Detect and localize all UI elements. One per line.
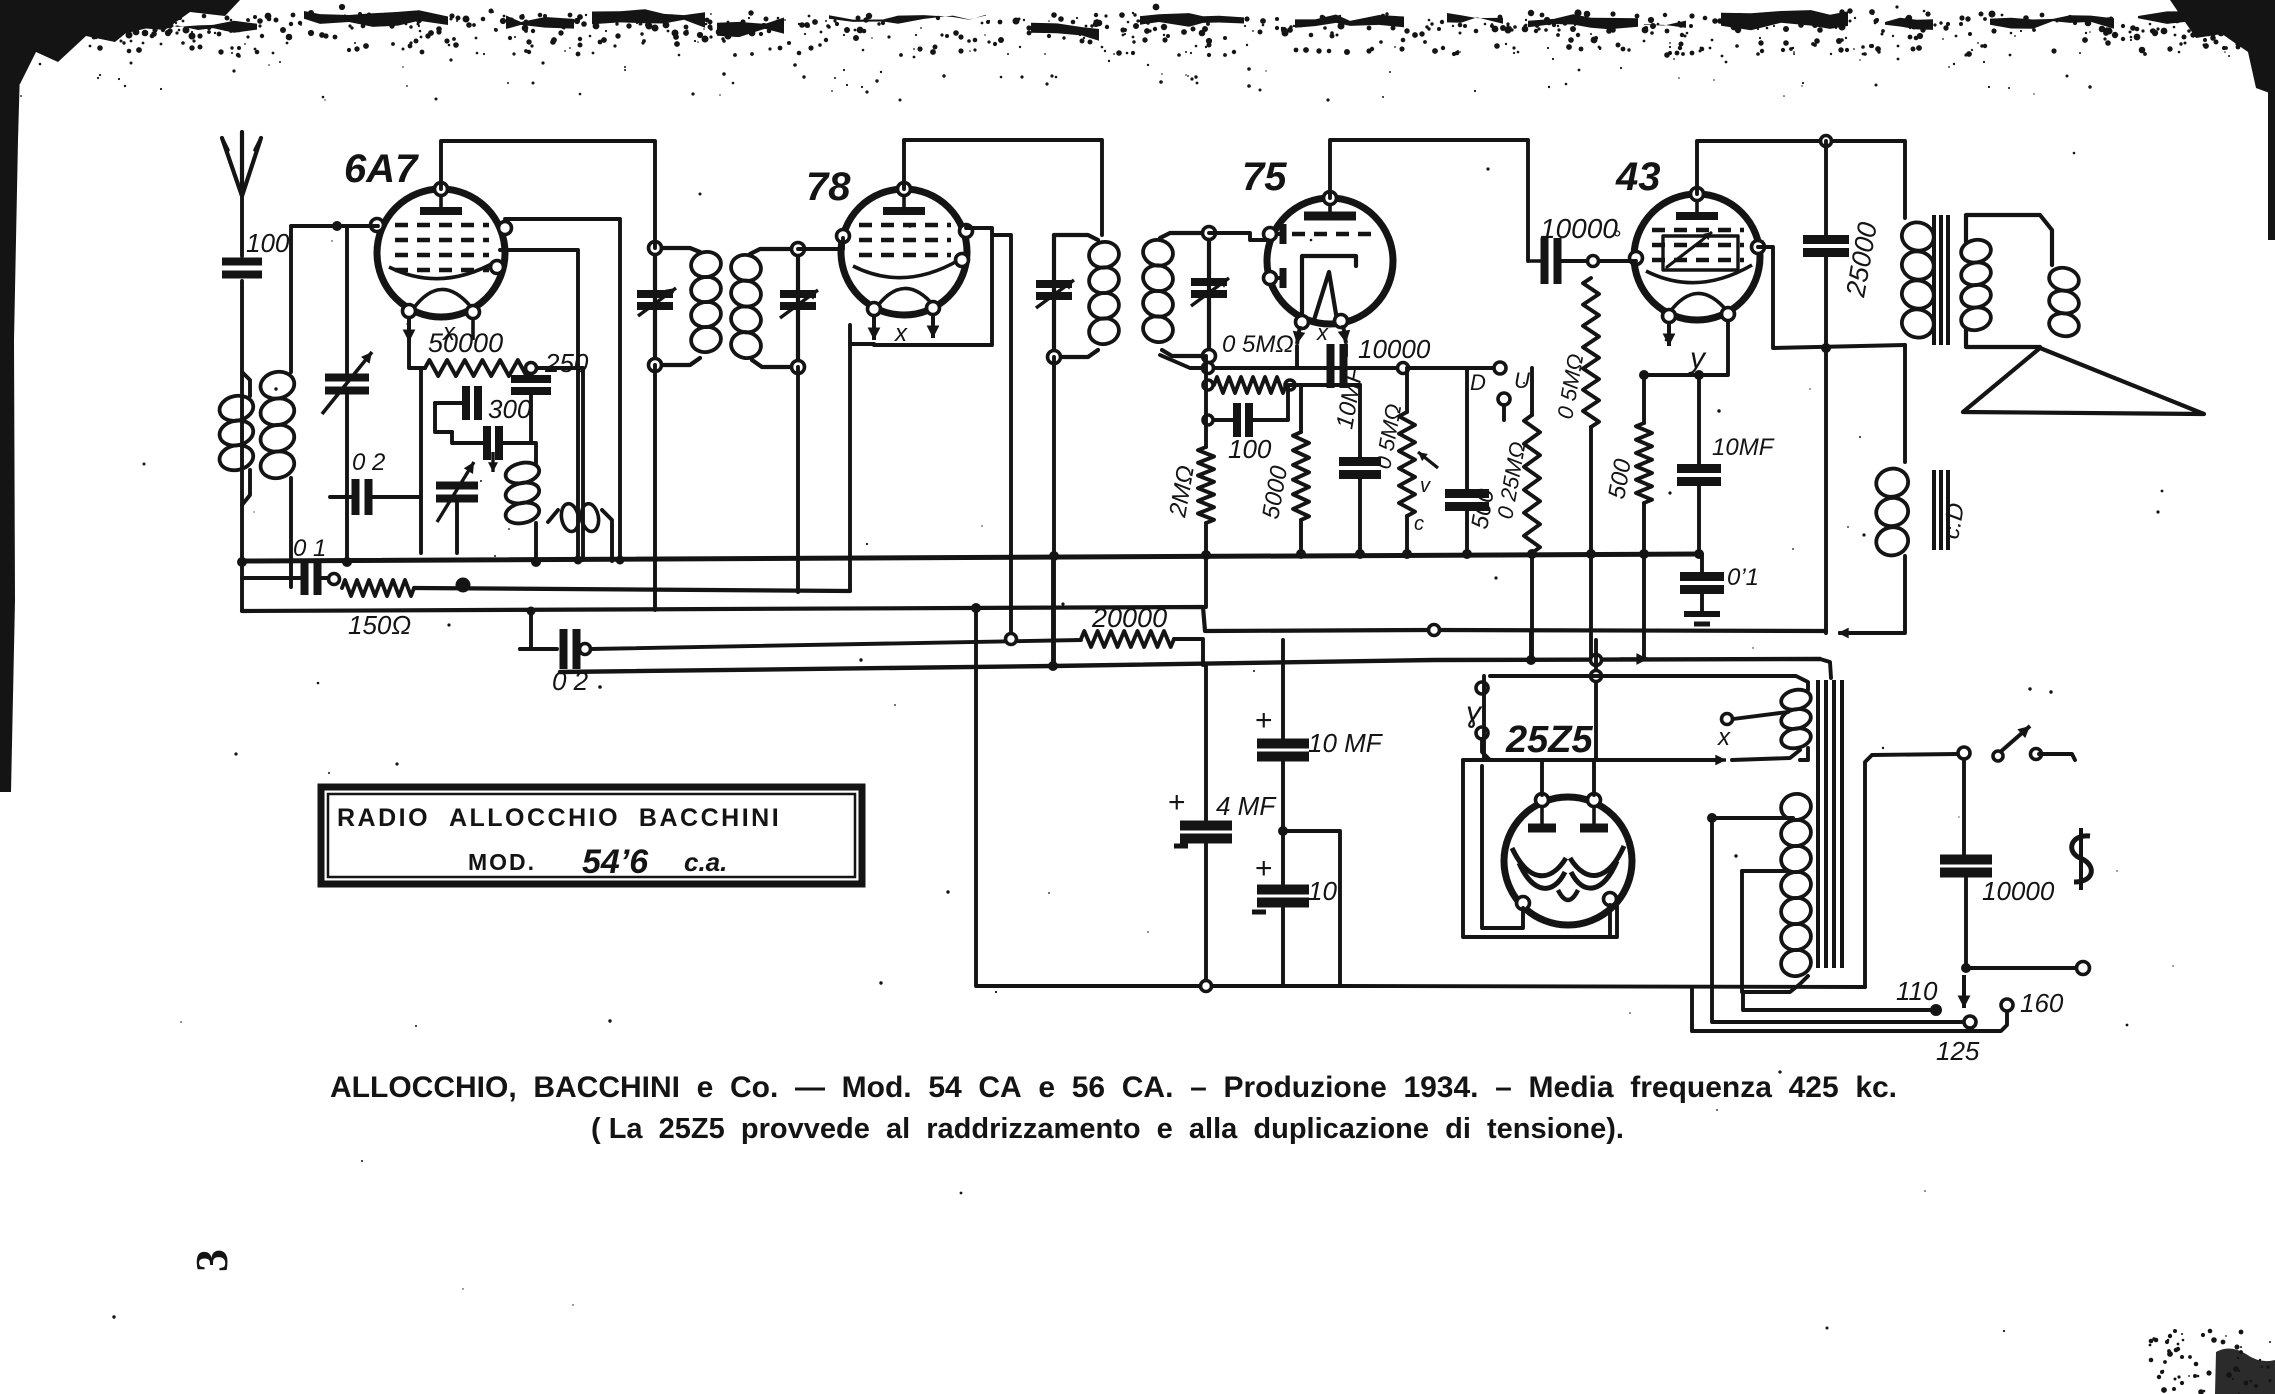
svg-text:v: v (1420, 475, 1431, 497)
arrow B5 (1620, 653, 1648, 665)
svg-text:20000: 20000 (1091, 603, 1167, 633)
bus wire B4c (1174, 639, 1203, 665)
resistor 500 cathode 43 (1603, 423, 1652, 503)
wire 025M to B5 (1530, 553, 1534, 661)
node B5 660 (1048, 625, 1602, 672)
svg-text:U: U (1514, 368, 1530, 393)
resistor 0.5M diode load (1214, 331, 1294, 393)
wire vert 1053 (1051, 556, 1055, 666)
node res05 ends (1203, 380, 1295, 390)
wire cap0.2 right (369, 495, 421, 499)
wire W2 left frame (1742, 869, 1786, 873)
capacitor 10000 line (1940, 860, 2055, 907)
wire coupling to 43 grid (1560, 259, 1636, 263)
terminal 125 (1936, 1016, 1980, 1066)
node 25000 bottom (1821, 343, 1831, 353)
coil L4 osc tickler (559, 502, 600, 532)
resistor 0.25M (1492, 415, 1540, 553)
label Y (1466, 696, 1483, 729)
capacitor 300 (466, 386, 532, 424)
wire IF1 sec top to 78 grid (798, 238, 843, 249)
wire antenna lead down (240, 196, 244, 256)
wire frame left down (1482, 676, 1486, 758)
wire frame F1 (1463, 760, 1617, 937)
wire IF1 left frame down (653, 365, 657, 610)
ground tick cap01 (1684, 614, 1720, 624)
svg-text:100: 100 (1228, 434, 1272, 464)
bus wire B3 (242, 607, 1826, 631)
transformer IF1 (637, 242, 818, 374)
svg-text:+: + (1255, 704, 1273, 737)
node 1596 frame (1591, 671, 1602, 682)
tube 75 detector (1242, 155, 1393, 345)
wire 10MF chain mid (1281, 758, 1285, 888)
wire 78 screen drop (992, 235, 1011, 639)
caption line1 (330, 1071, 1897, 1104)
capacitor 10000 coupling (1528, 238, 1558, 284)
coil L3 oscillator (504, 460, 541, 527)
node B3 dots (527, 603, 982, 616)
wire W1 bottom (1800, 748, 1808, 760)
svg-text:110: 110 (1896, 976, 1938, 1006)
wire switch out (2039, 754, 2075, 760)
capacitor 100 antenna series (222, 228, 290, 275)
wire inner frame (1482, 766, 1523, 928)
wire L2 bottom down (289, 478, 293, 587)
resistor 0.5M grid leak 43 (1552, 278, 1599, 427)
wire C1 stem to grid line (345, 226, 349, 378)
wire C1 down to bus (345, 391, 349, 562)
wire 500 top (1642, 375, 1646, 423)
svg-text:50000: 50000 (428, 328, 503, 358)
wire pin right down (1608, 905, 1612, 937)
svg-text:x: x (894, 320, 908, 347)
node AVC circle (329, 574, 340, 585)
wire cap500 stem (1465, 368, 1469, 493)
wire cap100 left (1208, 418, 1236, 422)
wire osc grid vertical (419, 370, 423, 553)
wire 4MF chain top (1204, 666, 1208, 823)
svg-text:25Z5: 25Z5 (1505, 719, 1593, 761)
terminal 110 (1896, 976, 1942, 1016)
bus wire B2 B+ (414, 588, 850, 591)
svg-text:D: D (1470, 370, 1486, 395)
svg-text:10000: 10000 (1540, 213, 1618, 244)
tube 25Z5 rectifier (1504, 719, 1632, 925)
wire cap500 down (1465, 507, 1469, 554)
caption line2 (591, 1113, 1624, 1145)
svg-text:y: y (1688, 342, 1707, 375)
node antenna bus junction (237, 557, 247, 567)
wire IF2 left frame down (1052, 357, 1056, 665)
resistor 50000 (425, 328, 531, 376)
svg-text:6A7: 6A7 (344, 147, 419, 191)
wire osc cap right (500, 405, 531, 443)
transformer IF2 (1036, 227, 1229, 364)
wire cap0.1 left (242, 576, 304, 580)
wire 75 plate rail (1330, 140, 1528, 261)
wire B4 stub (520, 611, 531, 649)
coil output primary (1899, 219, 1936, 340)
wire 10MF to box (1283, 831, 1340, 986)
capacitor 100 (75) (1228, 403, 1272, 464)
wire 10MF down (1358, 475, 1362, 554)
coil L2 antenna secondary (258, 369, 297, 481)
svg-text:300: 300 (488, 394, 532, 424)
wire B5 right corner (1820, 659, 1831, 678)
resistor 150 ohm (342, 580, 414, 640)
wire 43 plate rail (1697, 141, 1905, 218)
wire gridleak to bus (1589, 427, 1593, 661)
wire cap100 right (1250, 385, 1288, 420)
wire W2 tap 818 (1712, 816, 1793, 820)
wire 43 cathode line (1644, 322, 1728, 375)
svg-text:0’1: 0’1 (1727, 564, 1759, 591)
bus wire B4 (520, 647, 557, 651)
svg-text:160: 160 (2020, 988, 2064, 1018)
wire box corner down (1690, 987, 1694, 1031)
svg-text:10 MF: 10 MF (1308, 728, 1384, 758)
terminal 160 (2001, 988, 2064, 1018)
coil choke CD (1874, 466, 1911, 559)
wire 50000 left lead (409, 342, 425, 368)
wire H3 to winding (1732, 750, 1800, 760)
arrow junction choke (1838, 628, 1860, 639)
node line 968 (1961, 963, 1971, 973)
svg-text:10: 10 (1308, 876, 1337, 906)
wire 10MF43 down (1697, 482, 1701, 554)
wire tap 110 (1743, 992, 1930, 1010)
wire switch feed (1865, 754, 1958, 987)
svg-text:( La 25Z5 provvede al radd: ( La 25Z5 provvede al raddrizzamento e a… (591, 1113, 1624, 1145)
svg-text:MOD.: MOD. (468, 849, 536, 875)
capacitor 25000 (1803, 220, 1883, 300)
bus wire B5 (560, 659, 1820, 672)
wire L3 bottom (534, 523, 538, 562)
capacitor 0.1 bus (1680, 564, 1759, 591)
terminal x winding (1717, 714, 1733, 752)
wire cap0.2 left (330, 495, 356, 499)
capacitor 4MF (1168, 786, 1277, 846)
svg-text:ALLOCCHIO, BACCHINI e Co.: ALLOCCHIO, BACCHINI e Co. — Mod. 54 CA e… (330, 1071, 1897, 1104)
tube 78 IF amplifier (806, 165, 973, 347)
wire 75 pin right down (1344, 345, 1348, 356)
wire 50000 right to 250 node (531, 366, 583, 370)
capacitor 250 (511, 348, 589, 391)
node black dot (456, 578, 471, 593)
svg-text:125: 125 (1936, 1036, 1980, 1066)
node 43 cathode (1639, 370, 1649, 380)
node B1 dots (342, 549, 1704, 567)
switch S1 (1958, 726, 2042, 761)
svg-text:ɣ: ɣ (1466, 696, 1483, 729)
wire 250 down (529, 392, 533, 405)
wire x tap (1733, 712, 1788, 719)
svg-text:43: 43 (1615, 155, 1661, 199)
wire Y lower lead (1482, 739, 1490, 760)
tube 6A7 pentagrid converter (344, 147, 512, 346)
wire 43 plate to primary (1758, 247, 1905, 348)
wire 78 cathode return (848, 345, 852, 591)
svg-text:75: 75 (1242, 155, 1287, 199)
node 10000x right (1398, 363, 1409, 374)
wire pot top (1405, 368, 1409, 412)
capacitor 0.1 AVC series (293, 535, 326, 595)
capacitor osc grid (487, 426, 499, 472)
wire W2 frame box (1742, 871, 1808, 992)
svg-text:c.a.: c.a. (684, 847, 727, 877)
wire screen vertical 620 (505, 219, 620, 560)
wire L1 bottom (242, 470, 250, 505)
wire 78 cathode box (850, 325, 874, 344)
wire pot bottom (1405, 516, 1409, 554)
wire line cap stem (1962, 759, 1966, 859)
title box frame (321, 787, 862, 884)
wire line cap down (1964, 873, 1968, 968)
wire 2M chain (1204, 356, 1208, 447)
svg-text:100: 100 (246, 228, 290, 258)
svg-text:+: + (1168, 786, 1186, 819)
svg-text:c: c (1414, 513, 1424, 535)
wire 500 to bus (1642, 503, 1646, 659)
wire IF1 right frame down (796, 367, 800, 592)
node 10MF43 top (1694, 370, 1704, 380)
svg-text:°: ° (1612, 226, 1621, 251)
terminal U (1498, 368, 1530, 405)
svg-text:0 2: 0 2 (352, 449, 385, 476)
resistor 5000 (1257, 432, 1309, 521)
capacitor 10MF det (1331, 365, 1381, 475)
title text line1 (337, 804, 781, 832)
node grid line junction (332, 221, 342, 231)
svg-text:x: x (1717, 724, 1731, 751)
wire 5000 bottom (1299, 520, 1303, 554)
wire 75 pin left down (1295, 346, 1299, 368)
wire 25000 stem (1824, 141, 1828, 239)
svg-text:x: x (1316, 320, 1329, 345)
speaker cone (1963, 348, 2204, 414)
wire osc cap link (452, 432, 487, 443)
wire 1596 drop (1594, 640, 1598, 760)
wire L2 top to grid line (291, 226, 378, 372)
svg-text:54’6: 54’6 (582, 843, 649, 881)
wire 10MF43 stem (1697, 375, 1701, 468)
wire transformer top frame (1490, 676, 1808, 690)
bus wire B4b (591, 640, 1081, 649)
node W2 tap (1707, 813, 1717, 823)
tube 43 output pentode (1615, 155, 1765, 375)
capacitor 10 filter (1252, 852, 1337, 912)
wire antenna below cap (240, 281, 244, 611)
wire 10 chain bottom (1281, 904, 1285, 986)
svg-text:0 1: 0 1 (293, 535, 326, 562)
potentiometer 0.5M volume (1370, 402, 1438, 535)
page number 3 (186, 1249, 237, 1272)
coil speaker secondary (1959, 215, 2081, 347)
wire 5000 top (1299, 385, 1303, 432)
wire 6A7 plate rail (441, 141, 655, 248)
node 500 B1 (1639, 549, 1649, 559)
resistor 2M (1164, 447, 1214, 523)
svg-text:78: 78 (806, 165, 851, 209)
node cap100 left (1203, 415, 1213, 425)
capacitor 10MF cathode 43 (1677, 434, 1775, 482)
node plate rail 25000 (1821, 136, 1832, 147)
wire L4 right (602, 510, 612, 561)
node gridleak B1 (1586, 549, 1596, 559)
core choke (1934, 470, 1948, 550)
coil power W2 (1779, 791, 1814, 979)
svg-text:10000: 10000 (1358, 334, 1431, 364)
wire cap0.1 right (318, 576, 329, 580)
wire 78 plate rail (904, 140, 1102, 235)
wire plate stems (1540, 760, 1544, 795)
wire 025M top (1530, 368, 1534, 415)
wire choke bottom (1840, 556, 1905, 633)
label C.D (1937, 501, 1970, 541)
wire tap 160 (1692, 1011, 2007, 1031)
capacitor 10MF filter (1255, 704, 1384, 758)
node 10MF mid (1278, 826, 1288, 836)
variable capacitor padder (436, 462, 478, 522)
arrow H3 (1700, 755, 1726, 766)
wire 10MF stem (1358, 385, 1362, 461)
wire plate lower vertical 578 (500, 250, 578, 560)
wire 1531 drop (1529, 631, 1533, 660)
mains squiggle (2072, 828, 2092, 890)
capacitor 0.2 grid series (352, 449, 385, 515)
wire 300 frame (435, 403, 452, 432)
node 250 junction (526, 363, 537, 374)
arrow down line (1958, 975, 1971, 1008)
core output transformer (1934, 215, 1948, 345)
wire cap01 stem (1700, 554, 1704, 576)
wire tap 125 (1712, 818, 1963, 1022)
resistor 20000 (1081, 603, 1174, 647)
wire 10MF chain top (1281, 640, 1285, 742)
capacitor 10000 x (1331, 344, 1344, 388)
svg-text:10MF: 10MF (1712, 434, 1775, 461)
svg-text:150Ω: 150Ω (348, 610, 411, 640)
capacitor 500 det (1445, 486, 1500, 531)
wire terminal U stub (1502, 405, 1506, 420)
node 025M B1 (1527, 549, 1537, 559)
coil L1 antenna primary (217, 393, 255, 474)
title text line2 (468, 843, 727, 881)
wire 78 cathode box2 (874, 228, 992, 345)
terminal Y lower (1476, 727, 1488, 739)
node 4MF bottom (1201, 981, 1212, 992)
node B4 circle (1006, 634, 1017, 645)
wire L3 top (521, 443, 536, 463)
svg-text:10000: 10000 (1982, 876, 2055, 906)
wire box bottom ext (1342, 986, 1865, 987)
terminal Y upper (1476, 682, 1488, 694)
node cap02 right (580, 644, 591, 655)
wire 75 diode line (1160, 355, 1500, 368)
wire plate stems2 (1592, 760, 1596, 795)
wire center box (976, 608, 1342, 986)
svg-text:+: + (1255, 852, 1273, 885)
variable capacitor tuning C1 (322, 352, 372, 414)
label 10000 x (1358, 334, 1431, 364)
wire plate feed H3 (1463, 758, 1720, 762)
terminal D (1470, 362, 1506, 395)
wire 300 left (435, 401, 466, 405)
node 43 grid (1588, 256, 1599, 267)
wire cap01 tail (1700, 590, 1704, 612)
wire choke top (1903, 345, 1907, 462)
capacitor 0.2 bus (552, 629, 589, 696)
label 10000 coupling (1540, 213, 1621, 251)
wire 4MF chain bottom (1204, 840, 1208, 986)
node diode line left (1203, 363, 1214, 374)
wire 25000 down (1824, 253, 1828, 633)
svg-text:0 5MΩ: 0 5MΩ (1222, 331, 1294, 358)
wire IF2 sec top to 75 (1209, 233, 1268, 240)
wire L4 leads (548, 510, 558, 522)
wire to mains terminal (1966, 966, 2076, 970)
wire 2M bottom (1204, 523, 1208, 607)
core power transformer (1818, 680, 1842, 968)
antenna (222, 132, 261, 196)
svg-text:RADIO ALLOCCHIO BACCHINI: RADIO ALLOCCHIO BACCHINI (337, 804, 781, 832)
coil power W1 (1779, 687, 1812, 751)
wire res05 right link (1290, 383, 1360, 387)
bus wire B1 main (242, 554, 1700, 561)
wire padder stem (455, 498, 459, 553)
wire osc vertical 583 (581, 368, 585, 560)
terminal mains (2077, 962, 2090, 975)
svg-text:4 MF: 4 MF (1216, 791, 1277, 821)
wire L1 top (242, 372, 250, 396)
svg-text:3: 3 (186, 1249, 237, 1272)
